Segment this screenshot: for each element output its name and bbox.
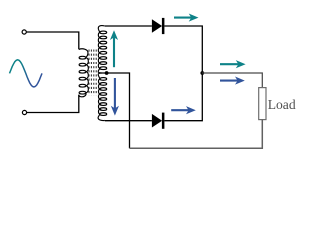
diode D1 (top) xyxy=(152,18,165,34)
center tap junction dot xyxy=(105,71,109,75)
AC sine wave symbol xyxy=(10,60,43,87)
current arrow (teal, right) at diode D1 xyxy=(174,14,199,22)
AC source terminal (bottom) xyxy=(22,110,26,114)
center tap wire xyxy=(101,73,130,148)
svg-text:Load: Load xyxy=(268,97,296,112)
transformer secondary winding L2 (lower half) xyxy=(98,73,107,121)
transformer secondary winding L2 (upper half) xyxy=(98,26,107,73)
transformer primary winding L1 xyxy=(79,49,89,97)
transformer core (dashed) xyxy=(89,50,96,96)
current arrow (teal, up) secondary upper xyxy=(110,30,118,67)
wire: top terminal to primary top xyxy=(26,32,78,49)
wire: secondary bottom to diode D2 xyxy=(105,120,152,122)
wire: node A to load top xyxy=(202,73,262,88)
wire: secondary top to diode D1 xyxy=(105,25,152,27)
node A junction dot xyxy=(200,71,204,75)
wire: bottom terminal to primary bottom xyxy=(27,95,79,113)
current arrow (blue, right) to load xyxy=(220,77,245,85)
wire: diode D2 up to node A xyxy=(164,73,202,121)
wire: load bottom return rail to center tap xyxy=(130,120,263,149)
wire: diode D1 to node A xyxy=(164,26,202,72)
current arrow (blue, right) at diode D2 xyxy=(171,106,196,114)
current arrow (blue, down) secondary lower xyxy=(111,78,119,116)
diode D2 (bottom) xyxy=(152,113,165,129)
current arrow (teal, right) to load xyxy=(220,60,246,68)
AC source terminal (top) xyxy=(22,30,26,34)
load resistor R xyxy=(259,88,266,120)
